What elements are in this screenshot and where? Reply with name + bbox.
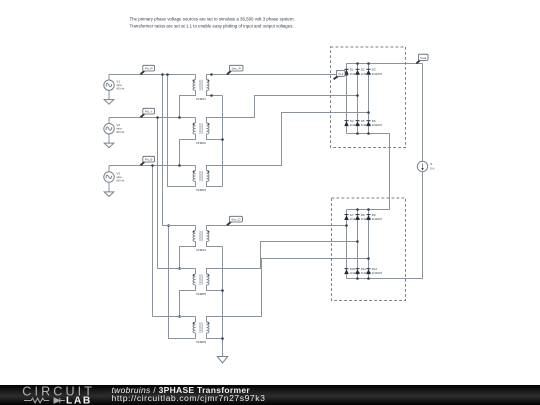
voltage source V2: [104, 123, 125, 134]
diode D9: [366, 213, 382, 221]
node dot XFMR4 detour tap: [178, 267, 181, 270]
wire bus Pri_R down to XFMR4: [162, 75, 164, 226]
wire bridge1 top bus to Vout: [347, 63, 423, 65]
svg-text:Y1L: Y1L: [338, 72, 344, 76]
svg-text:1N4007: 1N4007: [372, 217, 383, 221]
node dot Y bus tap: [156, 116, 159, 119]
node dot XFMR1 detour tap: [178, 116, 181, 119]
node dot bridge2 top bus leg2: [356, 208, 359, 211]
svg-text:XFMR6: XFMR6: [196, 340, 206, 344]
svg-text:60 Hz: 60 Hz: [116, 130, 124, 134]
svg-text:Pri_B: Pri_B: [145, 158, 153, 162]
svg-text:XFMR2: XFMR2: [196, 141, 206, 145]
svg-text:5 A: 5 A: [430, 167, 434, 171]
wire XFMR5 primary bottom detour: [180, 285, 196, 317]
wire XFMR4 secondary top run: [207, 226, 347, 231]
node flag Pri_R: [141, 65, 155, 74]
node dot bridge1 input1: [345, 73, 348, 76]
svg-text:60 Hz: 60 Hz: [116, 178, 124, 182]
svg-text:Pri_Y: Pri_Y: [145, 110, 153, 114]
svg-text:1N4007: 1N4007: [372, 271, 383, 275]
node dot XFMR2 detour tap: [178, 164, 181, 167]
node dot bridge1 bottom bus leg2: [356, 132, 359, 135]
wire XFMR2 primary bottom detour: [180, 134, 196, 166]
node dot neutral2 tap XFMR5: [221, 289, 224, 292]
voltage source V3: [104, 171, 125, 182]
svg-text:XFMR1: XFMR1: [196, 97, 206, 101]
svg-text:XFMR4: XFMR4: [196, 248, 206, 252]
node dot bridge2 top bus leg3: [367, 208, 370, 211]
footer bar: [0, 385, 540, 405]
diode D7: [344, 213, 360, 221]
svg-text:XFMR5: XFMR5: [196, 292, 206, 296]
svg-text:XFMR3: XFMR3: [196, 188, 206, 192]
wire XFMR3 primary bottom pin: [195, 182, 197, 187]
diode D8: [355, 213, 371, 221]
wire I1 down to bridge2 return: [422, 172, 424, 279]
transformer XFMR6: [193, 322, 209, 344]
wire XFMR2 secondary top run: [207, 96, 358, 124]
ground below V3: [104, 192, 114, 197]
dashed box bridge1: [331, 47, 406, 148]
svg-text:Sec_D: Sec_D: [231, 218, 241, 222]
wire bridge1 leg 3: [368, 64, 370, 134]
wire bus Pri_B down to XFMR6: [152, 166, 154, 317]
wire XFMR3 primary top pin: [195, 166, 197, 171]
diode D12: [366, 267, 382, 275]
svg-text:The primary phase voltage sour: The primary phase voltage sources are se…: [130, 16, 295, 21]
wire V3 bottom stub: [108, 182, 110, 192]
node dot bridge1 top bus leg2: [356, 62, 359, 65]
wire Pri_Y row: [109, 117, 196, 119]
wire XFMR3 secondary top run: [207, 113, 369, 171]
wire XFMR6 primary top pin: [195, 317, 197, 323]
wire XFMR6 primary bottom pin: [195, 333, 197, 339]
transformer XFMR4: [193, 231, 209, 252]
wire XFMR1 secondary bottom to neutral: [207, 91, 223, 96]
svg-text:Sec_R: Sec_R: [232, 67, 242, 71]
node dot XFMR1 sec top pin: [210, 73, 213, 76]
wire delta loopback XFMR3 prim to Pri_R: [168, 75, 196, 187]
wire V2 bottom stub: [108, 134, 110, 143]
wire V1 bottom stub: [108, 90, 110, 99]
wire XFMR4 primary top pin: [195, 226, 197, 231]
wire Pri_R row: [109, 74, 196, 76]
logo circuit doodle: [24, 398, 65, 403]
wire XFMR5 primary top pin: [195, 269, 197, 275]
wire neutral bank2: [222, 247, 224, 357]
wire bridge2 leg 3: [368, 210, 370, 279]
svg-text:1N4007: 1N4007: [372, 72, 383, 76]
wire XFMR1 primary bottom detour: [180, 91, 196, 118]
diode D5: [355, 119, 371, 127]
wire XFMR1 primary top pin: [195, 75, 197, 80]
wire bus Pri_Y down to XFMR5: [157, 118, 159, 269]
node dot bridge2 input2: [356, 240, 359, 243]
node flag Sec_D: [227, 216, 243, 225]
node dot XFMR1 sec bottom pin: [210, 94, 213, 97]
wire XFMR5 secondary bottom to neutral: [207, 285, 223, 291]
ground bank2 neutral: [217, 357, 227, 363]
wire delta loopback XFMR6 prim to XFMR4 row: [169, 226, 196, 339]
ground below V2: [104, 143, 114, 148]
wire V1 top stub: [108, 75, 110, 81]
wire XFMR4 secondary bottom to neutral: [207, 242, 223, 247]
node dot bridge2 input3: [367, 257, 370, 260]
wire V3 top stub: [108, 166, 110, 172]
dashed box bridge2: [332, 198, 406, 301]
diode D11: [355, 267, 371, 275]
node dot bridge2 input1: [345, 224, 348, 227]
wire XFMR5 row left: [158, 268, 196, 270]
transformer XFMR3: [193, 171, 209, 192]
wire XFMR1 secondary top run: [207, 75, 347, 80]
node flag Pri_Y: [141, 108, 155, 117]
wire bridge2 top bus: [347, 209, 390, 211]
transformer XFMR2: [193, 123, 209, 145]
node dot B bus tap: [151, 164, 154, 167]
wire XFMR4 row left: [163, 225, 196, 227]
diode D1: [344, 68, 360, 76]
wire neutral bank1: [222, 96, 224, 187]
wire XFMR3 secondary bottom to neutral: [207, 182, 223, 187]
node dot bridge1 input3: [367, 111, 370, 114]
wire XFMR4 primary bottom detour: [180, 242, 196, 269]
svg-text:Vout: Vout: [420, 56, 426, 60]
wire bridge1 bottom bus to bridge2: [347, 134, 390, 210]
node flag Pri_B: [141, 156, 155, 165]
node dot bridge1 bottom bus leg3: [367, 132, 370, 135]
svg-text:60 Hz: 60 Hz: [116, 87, 124, 91]
diode D6: [366, 119, 382, 127]
node flag Y1L bridge1 input: [334, 70, 345, 79]
svg-text:I1: I1: [430, 162, 433, 166]
node dot bridge2 bottom bus leg3: [367, 277, 370, 280]
node dot loopback2 tap: [167, 224, 170, 227]
node flag Vout: [416, 54, 428, 63]
wire XFMR6 row left: [153, 316, 196, 318]
wire bridge2 bottom bus to return: [347, 278, 423, 280]
node flag Sec_R: [227, 65, 243, 74]
node dot bridge1 input2: [356, 94, 359, 97]
wire bridge1 leg 1: [346, 64, 348, 134]
wire bridge2 leg 1: [346, 210, 348, 279]
transformer XFMR1: [193, 80, 209, 101]
node dot XFMR5 detour tap: [178, 315, 181, 318]
node dot neutral2 tap XFMR6: [221, 337, 224, 340]
diode D2: [355, 68, 371, 76]
diode D4: [344, 119, 360, 127]
wire Vout drop upper: [422, 64, 424, 162]
wire XFMR2 primary top pin: [195, 118, 197, 124]
svg-text:1N4007: 1N4007: [372, 123, 383, 127]
wire XFMR6 secondary bottom to neutral: [207, 333, 223, 339]
node dot loopback1 tap: [166, 73, 169, 76]
voltage source V1: [104, 80, 125, 91]
wire XFMR2 secondary bottom to neutral: [207, 134, 223, 140]
ground below V1: [104, 100, 114, 105]
wire XFMR6 secondary top run: [207, 259, 369, 323]
node dot neutral1 tap XFMR2: [221, 138, 224, 141]
diode D10: [344, 267, 360, 275]
node dot R bus tap: [161, 73, 164, 76]
svg-text:Pri_R: Pri_R: [145, 67, 154, 71]
wire Pri_B row: [109, 165, 196, 167]
wire V2 top stub: [108, 118, 110, 124]
node dot bridge1 top bus leg3: [367, 62, 370, 65]
svg-text:Transformer ratios are set at: Transformer ratios are set at 1:1 to ena…: [130, 24, 294, 29]
wire bridge1 leg 2: [357, 64, 359, 134]
transformer XFMR5: [193, 274, 209, 296]
wire bridge2 leg 2: [357, 210, 359, 279]
node dot bridge2 bottom bus leg2: [356, 277, 359, 280]
diode D3: [366, 68, 382, 76]
current source I1: [417, 161, 434, 171]
wire XFMR5 secondary top run: [207, 242, 358, 275]
